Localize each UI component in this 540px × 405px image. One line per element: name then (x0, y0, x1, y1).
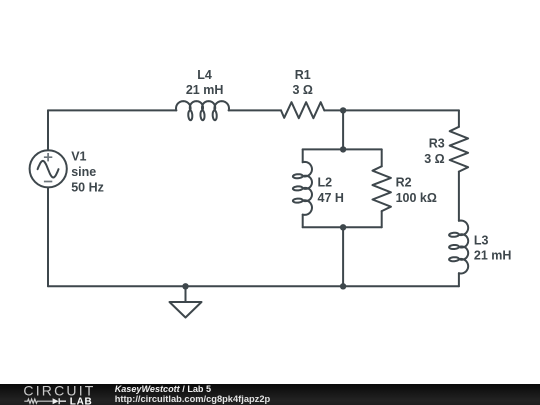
inductor L2 (293, 162, 312, 215)
svg-text:100 kΩ: 100 kΩ (396, 191, 437, 205)
svg-text:sine: sine (71, 165, 96, 179)
svg-text:L4: L4 (197, 68, 212, 82)
wire top rail segment A (48, 109, 176, 111)
wire middle branch upper (342, 110, 344, 149)
resistor R2 (373, 166, 391, 211)
V1 plus sign (44, 153, 52, 161)
wire bottom rail (48, 285, 459, 287)
resistor R3 (450, 127, 468, 172)
wire right vertical upper (458, 110, 460, 126)
svg-text:R2: R2 (396, 176, 412, 190)
junction node at bottom rail middle (340, 283, 346, 289)
svg-text:L3: L3 (474, 233, 489, 247)
svg-text:KaseyWestcott / Lab 5: KaseyWestcott / Lab 5 (115, 384, 211, 394)
svg-text:47 H: 47 H (318, 191, 344, 205)
wire top rail segment B (229, 109, 281, 111)
svg-text:3 Ω: 3 Ω (424, 152, 444, 166)
svg-text:L2: L2 (318, 176, 333, 190)
wire parallel box top bar (303, 148, 382, 150)
wire middle branch lower (342, 227, 344, 286)
svg-text:21 mH: 21 mH (474, 249, 512, 263)
junction node at ground (182, 283, 188, 289)
inductor L4 (176, 101, 229, 120)
wire R2 branch top stub (381, 149, 383, 166)
wire L2 branch top stub (302, 149, 304, 162)
ground triangle (170, 302, 202, 318)
svg-text:50 Hz: 50 Hz (71, 180, 104, 194)
svg-text:http://circuitlab.com/cg8pk4fj: http://circuitlab.com/cg8pk4fjapz2p (115, 394, 271, 404)
junction node at box top (340, 146, 346, 152)
junction node at box bottom (340, 224, 346, 230)
wire left vertical lower (47, 187, 49, 286)
wire right vertical lower (458, 273, 460, 286)
V1 minus sign (44, 181, 52, 183)
wire left vertical upper (47, 110, 49, 150)
CircuitLab logo diode bar and lead (59, 398, 66, 404)
wire top rail segment C (324, 109, 459, 111)
svg-text:LAB: LAB (70, 396, 93, 405)
svg-text:R3: R3 (429, 137, 445, 151)
wire right vertical middle (458, 172, 460, 221)
ground stem (185, 286, 187, 302)
resistor R1 (281, 102, 324, 118)
wire parallel box bottom bar (303, 226, 382, 228)
CircuitLab logo diode symbol (53, 398, 59, 404)
voltage source V1 circle (30, 150, 67, 187)
svg-text:3 Ω: 3 Ω (292, 83, 312, 97)
svg-text:V1: V1 (71, 149, 86, 163)
junction node at R1 output (340, 107, 346, 113)
footer black bar (0, 384, 540, 405)
wire L2 branch bottom stub (302, 215, 304, 228)
voltage source V1 sine wave (38, 161, 59, 178)
svg-text:21 mH: 21 mH (186, 83, 224, 97)
svg-text:R1: R1 (295, 68, 311, 82)
inductor L3 (449, 221, 468, 274)
wire R2 branch bottom stub (381, 211, 383, 227)
CircuitLab logo resistor zigzag doodle (24, 399, 52, 403)
